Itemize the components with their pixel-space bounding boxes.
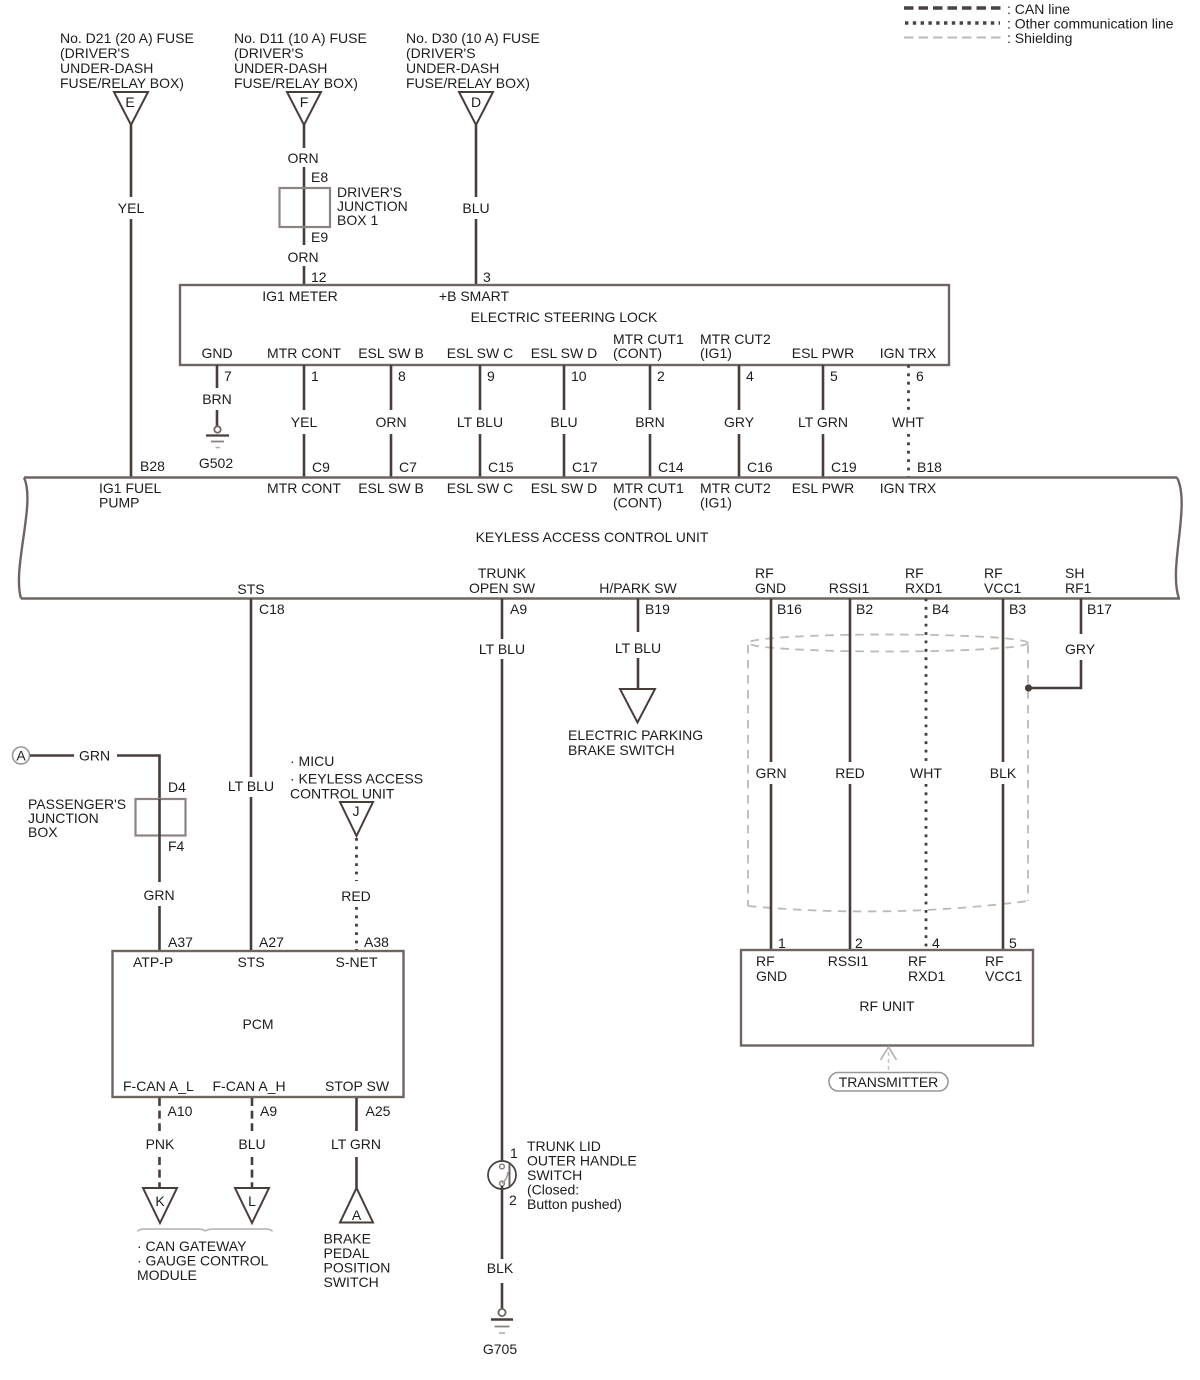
svg-text:GRN: GRN: [755, 765, 786, 781]
svg-text:LT BLU: LT BLU: [479, 641, 525, 657]
svg-text:GND: GND: [755, 580, 786, 596]
svg-text:C18: C18: [259, 601, 285, 617]
svg-text:IGN TRX: IGN TRX: [880, 345, 937, 361]
svg-text:E8: E8: [311, 169, 328, 185]
svg-text:ESL SW B: ESL SW B: [358, 345, 424, 361]
svg-text:A10: A10: [168, 1103, 193, 1119]
svg-text:C19: C19: [831, 459, 857, 475]
svg-text:2: 2: [855, 935, 863, 951]
svg-text:No. D30 (10 A) FUSE: No. D30 (10 A) FUSE: [406, 30, 540, 46]
svg-text:C15: C15: [488, 459, 514, 475]
pin 6 stub dotted: [907, 365, 910, 410]
MTR CUT1 wire lower: [649, 434, 652, 477]
connector D triangle: [459, 92, 493, 125]
RF GND wire upper: [770, 599, 773, 763]
svg-text:D4: D4: [168, 779, 186, 795]
svg-text:BOX: BOX: [28, 824, 58, 840]
RF RXD1 dotted wire upper: [925, 599, 928, 763]
svg-text:PCM: PCM: [242, 1016, 273, 1032]
svg-text:(IG1): (IG1): [700, 345, 732, 361]
svg-text:C7: C7: [399, 459, 417, 475]
svg-text:E9: E9: [311, 229, 328, 245]
svg-text:STS: STS: [238, 954, 265, 970]
svg-text:B4: B4: [932, 601, 949, 617]
svg-text:A9: A9: [510, 601, 527, 617]
STOP SW wire upper: [355, 1098, 358, 1131]
svg-text:ESL SW B: ESL SW B: [358, 480, 424, 496]
svg-text:ATP-P: ATP-P: [133, 954, 173, 970]
svg-text:K: K: [155, 1193, 165, 1209]
svg-text:B16: B16: [777, 601, 802, 617]
svg-text:10: 10: [571, 368, 587, 384]
svg-text:No. D11 (10 A) FUSE: No. D11 (10 A) FUSE: [234, 30, 367, 46]
wire F upper segment: [303, 125, 306, 148]
wire through passenger box: [158, 799, 161, 882]
svg-text:PUMP: PUMP: [99, 495, 139, 511]
svg-text:B3: B3: [1009, 601, 1026, 617]
MTR CONT wire lower: [303, 434, 306, 477]
svg-text:FUSE/RELAY BOX): FUSE/RELAY BOX): [234, 75, 358, 91]
svg-text:G705: G705: [483, 1341, 517, 1357]
svg-text:TRUNK: TRUNK: [478, 565, 527, 581]
svg-text:YEL: YEL: [118, 200, 145, 216]
svg-text:H/PARK SW: H/PARK SW: [599, 580, 677, 596]
svg-text:(CONT): (CONT): [613, 495, 662, 511]
svg-text:GRN: GRN: [143, 887, 174, 903]
svg-text:S-NET: S-NET: [336, 954, 378, 970]
svg-text:RXD1: RXD1: [905, 580, 943, 596]
svg-text:RF: RF: [985, 953, 1004, 969]
svg-text:ESL SW D: ESL SW D: [531, 345, 597, 361]
F-CAN A_H dashed wire lower: [251, 1157, 254, 1188]
svg-text:BLK: BLK: [487, 1260, 514, 1276]
junction dot on shield: [1025, 684, 1032, 691]
svg-text:12: 12: [311, 269, 327, 285]
driver's junction box 1: [280, 188, 331, 227]
pin 9 stub: [479, 365, 482, 410]
pin 1 stub: [303, 365, 306, 410]
svg-text:BLU: BLU: [550, 414, 577, 430]
svg-text:A27: A27: [259, 934, 284, 950]
pin 10 stub: [563, 365, 566, 410]
passenger's junction box label: [28, 796, 126, 840]
svg-text:RSSI1: RSSI1: [828, 953, 869, 969]
svg-text:IGN TRX: IGN TRX: [880, 480, 937, 496]
STS wire lower: [250, 797, 253, 951]
svg-text:F-CAN A_H: F-CAN A_H: [213, 1078, 286, 1094]
S-NET dotted wire upper: [355, 838, 358, 881]
svg-text:STOP SW: STOP SW: [325, 1078, 390, 1094]
wire E to keyless (YEL) upper segment: [130, 125, 133, 197]
trunk lid switch label: [527, 1138, 637, 1212]
F-CAN A_H dashed wire upper: [251, 1098, 254, 1131]
svg-text:GRY: GRY: [724, 414, 755, 430]
svg-text:UNDER-DASH: UNDER-DASH: [406, 60, 499, 76]
svg-text:(DRIVER'S: (DRIVER'S: [406, 45, 476, 61]
IGN TRX wire lower dotted: [907, 434, 910, 477]
svg-text:RF: RF: [905, 565, 924, 581]
svg-text:STS: STS: [237, 581, 264, 597]
svg-text:(CONT): (CONT): [613, 345, 662, 361]
svg-text:1: 1: [510, 1145, 518, 1161]
svg-text:ORN: ORN: [287, 150, 318, 166]
RF unit pin label RF GND: [756, 953, 787, 984]
svg-text:F: F: [300, 94, 309, 110]
PCM box: [113, 951, 404, 1097]
svg-text:CONTROL UNIT: CONTROL UNIT: [290, 786, 395, 802]
keyless pin label SH RF1: [1065, 565, 1092, 596]
RSSI1 wire lower: [849, 784, 852, 950]
svg-text:MODULE: MODULE: [137, 1267, 197, 1283]
svg-text:C14: C14: [658, 459, 684, 475]
fuse No. D30 label: [406, 30, 540, 91]
svg-text:B28: B28: [140, 458, 165, 474]
legend other communication line sample: [905, 21, 1000, 24]
svg-text:: Shielding: : Shielding: [1007, 30, 1072, 46]
svg-text:RF: RF: [984, 565, 1003, 581]
svg-text:GND: GND: [201, 345, 232, 361]
RF GND wire lower: [770, 784, 773, 950]
wire from A right segment and corner: [117, 756, 160, 800]
trunk lid outer handle switch: [488, 1161, 516, 1189]
F-CAN A_L dashed wire lower: [158, 1157, 161, 1188]
svg-text:A25: A25: [366, 1103, 391, 1119]
svg-text:RSSI1: RSSI1: [829, 580, 870, 596]
wire F lower segment: [303, 266, 306, 285]
svg-text:RED: RED: [835, 765, 865, 781]
svg-text:3: 3: [483, 269, 491, 285]
svg-text:KEYLESS ACCESS CONTROL UNIT: KEYLESS ACCESS CONTROL UNIT: [476, 529, 709, 545]
SH RF1 wire upper: [1080, 599, 1083, 635]
svg-text:YEL: YEL: [291, 414, 318, 430]
RF RXD1 dotted wire lower: [925, 784, 928, 950]
svg-text:B2: B2: [856, 601, 873, 617]
pin 7 stub: [216, 365, 219, 388]
svg-text:GND: GND: [756, 968, 787, 984]
ESL SW C wire lower: [479, 434, 482, 477]
svg-text:1: 1: [311, 368, 319, 384]
wire E to keyless (YEL) lower segment: [130, 219, 133, 477]
wire D upper segment: [475, 125, 478, 197]
svg-text:2: 2: [509, 1192, 517, 1208]
svg-text:FUSE/RELAY BOX): FUSE/RELAY BOX): [60, 75, 184, 91]
svg-text:· KEYLESS ACCESS: · KEYLESS ACCESS: [290, 771, 423, 787]
pin 5 stub: [822, 365, 825, 410]
connector L triangle: [235, 1188, 269, 1223]
trunk open sw wire upper: [501, 599, 504, 640]
svg-text:WHT: WHT: [910, 765, 942, 781]
svg-text:RF: RF: [756, 953, 775, 969]
svg-text:MTR CONT: MTR CONT: [267, 345, 341, 361]
svg-text:ESL PWR: ESL PWR: [792, 480, 855, 496]
svg-text:2: 2: [657, 368, 665, 384]
brace under K and L: [138, 1229, 273, 1232]
svg-text:VCC1: VCC1: [985, 968, 1023, 984]
RF VCC1 wire upper: [1002, 599, 1005, 763]
svg-text:UNDER-DASH: UNDER-DASH: [60, 60, 153, 76]
pin 4 stub: [738, 365, 741, 410]
svg-text:LT GRN: LT GRN: [798, 414, 848, 430]
RF unit box: [741, 950, 1033, 1046]
svg-text:7: 7: [224, 368, 232, 384]
svg-text:LT GRN: LT GRN: [331, 1136, 381, 1152]
svg-text:A: A: [16, 748, 26, 764]
svg-text:F-CAN A_L: F-CAN A_L: [123, 1078, 194, 1094]
svg-text:5: 5: [830, 368, 838, 384]
STS wire upper: [250, 599, 253, 778]
svg-text:PNK: PNK: [146, 1136, 175, 1152]
svg-text:SWITCH: SWITCH: [324, 1274, 379, 1290]
GND wire to ground: [216, 410, 219, 426]
svg-text:BLU: BLU: [238, 1136, 265, 1152]
svg-text:F4: F4: [168, 838, 185, 854]
connector A triangle (up): [340, 1188, 373, 1223]
keyless pin label MTR CUT2 (IG1): [700, 480, 771, 511]
svg-text:9: 9: [487, 368, 495, 384]
RF VCC1 wire lower: [1002, 784, 1005, 950]
MICU keyless label: [290, 753, 423, 802]
svg-text:LT BLU: LT BLU: [457, 414, 503, 430]
ground G705 symbol: [491, 1309, 513, 1333]
svg-text:6: 6: [916, 368, 924, 384]
circle A connector: [13, 747, 30, 764]
svg-text:LT BLU: LT BLU: [615, 640, 661, 656]
RSSI1 wire upper: [849, 599, 852, 763]
svg-text:ORN: ORN: [287, 249, 318, 265]
wire F through junction box: [303, 167, 306, 245]
keyless pin label RF RXD1: [905, 565, 943, 596]
svg-text:No. D21 (20 A) FUSE: No. D21 (20 A) FUSE: [60, 30, 194, 46]
svg-text:WHT: WHT: [892, 414, 924, 430]
S-NET dotted wire lower: [355, 907, 358, 950]
brake pedal position switch label: [324, 1231, 391, 1291]
MTR CUT2 wire lower: [738, 434, 741, 477]
ESL pin label MTR CUT2 (IG1): [700, 331, 771, 361]
passenger's junction box: [136, 799, 186, 836]
wire from A left segment: [30, 754, 74, 757]
driver's junction box 1 label: [337, 184, 408, 228]
electric steering lock box: [180, 285, 949, 365]
transmitter arrow: [881, 1047, 897, 1071]
svg-text:RED: RED: [341, 888, 371, 904]
svg-text:ESL PWR: ESL PWR: [792, 345, 855, 361]
svg-text:UNDER-DASH: UNDER-DASH: [234, 60, 327, 76]
svg-text:Button pushed): Button pushed): [527, 1196, 622, 1212]
trunk open sw wire middle: [501, 659, 504, 1165]
electric parking brake switch label: [568, 727, 703, 758]
svg-text:C16: C16: [747, 459, 773, 475]
connector J triangle: [340, 802, 373, 836]
trunk wire below switch: [501, 1186, 504, 1259]
RF unit pin label RF VCC1: [985, 953, 1023, 984]
svg-text:IG1 METER: IG1 METER: [262, 288, 337, 304]
ESL SW D wire lower: [563, 434, 566, 477]
legend CAN line sample: [904, 6, 1001, 10]
svg-text:RXD1: RXD1: [908, 968, 946, 984]
svg-text:RF: RF: [908, 953, 927, 969]
svg-text:D: D: [471, 94, 481, 110]
RF unit pin label RF RXD1: [908, 953, 946, 984]
svg-text:8: 8: [398, 368, 406, 384]
svg-text:4: 4: [932, 935, 940, 951]
svg-text:B19: B19: [645, 601, 670, 617]
svg-text:BRN: BRN: [202, 391, 232, 407]
svg-text:ELECTRIC PARKING: ELECTRIC PARKING: [568, 727, 703, 743]
keyless pin label TRUNK OPEN SW: [469, 565, 536, 596]
svg-text:(DRIVER'S: (DRIVER'S: [234, 45, 304, 61]
svg-text:A9: A9: [260, 1103, 277, 1119]
svg-text:J: J: [353, 803, 360, 819]
svg-text:FUSE/RELAY BOX): FUSE/RELAY BOX): [406, 75, 530, 91]
trunk wire to ground: [501, 1283, 504, 1309]
svg-text:C17: C17: [572, 459, 598, 475]
svg-text:E: E: [125, 94, 134, 110]
CAN gateway gauge control module label: [137, 1238, 269, 1283]
svg-text:RF UNIT: RF UNIT: [859, 998, 915, 1014]
svg-text:B17: B17: [1087, 601, 1112, 617]
F-CAN A_L dashed wire upper: [158, 1098, 161, 1131]
keyless pin label RF GND: [755, 565, 786, 596]
transmitter stadium: [829, 1073, 948, 1092]
svg-text:MTR CONT: MTR CONT: [267, 480, 341, 496]
STOP SW wire lower: [355, 1157, 358, 1188]
svg-text:+B SMART: +B SMART: [439, 288, 510, 304]
ESL PWR wire lower: [822, 434, 825, 477]
svg-text:GRY: GRY: [1065, 641, 1096, 657]
keyless pin label RF VCC1: [984, 565, 1022, 596]
h/park sw wire upper: [637, 599, 640, 633]
svg-text:4: 4: [746, 368, 754, 384]
svg-text:(DRIVER'S: (DRIVER'S: [60, 45, 130, 61]
svg-text:BLK: BLK: [990, 765, 1017, 781]
svg-text:TRANSMITTER: TRANSMITTER: [839, 1074, 939, 1090]
svg-text:C9: C9: [312, 459, 330, 475]
svg-text:OPEN SW: OPEN SW: [469, 580, 536, 596]
svg-text:RF: RF: [755, 565, 774, 581]
svg-text:· MICU: · MICU: [290, 753, 334, 769]
svg-text:BRAKE SWITCH: BRAKE SWITCH: [568, 742, 675, 758]
svg-text:RF1: RF1: [1065, 580, 1092, 596]
fuse No. D21 label: [60, 30, 194, 91]
svg-text:ESL SW C: ESL SW C: [447, 345, 513, 361]
connector E triangle: [114, 92, 148, 125]
connector F triangle: [287, 92, 321, 125]
pin 2 stub: [649, 365, 652, 410]
keyless pin label IG1 FUEL PUMP: [99, 480, 161, 511]
svg-text:A38: A38: [364, 934, 389, 950]
pin 8 stub: [390, 365, 393, 410]
svg-text:L: L: [248, 1193, 256, 1209]
fuse No. D11 label: [234, 30, 367, 91]
svg-text:A37: A37: [168, 934, 193, 950]
svg-text:SH: SH: [1065, 565, 1084, 581]
SH RF1 wire elbow to shield: [1028, 660, 1081, 688]
svg-text:BRN: BRN: [635, 414, 665, 430]
GRN wire to PCM: [158, 906, 161, 951]
svg-text:ESL SW C: ESL SW C: [447, 480, 513, 496]
svg-text:1: 1: [778, 935, 786, 951]
svg-text:(IG1): (IG1): [700, 495, 732, 511]
svg-text:G502: G502: [199, 455, 233, 471]
ground G502 symbol: [206, 426, 229, 447]
shielding outline (cylinder): [748, 635, 1028, 912]
svg-text:5: 5: [1009, 935, 1017, 951]
electric parking brake connector triangle: [620, 689, 655, 723]
svg-text:A: A: [352, 1207, 362, 1223]
svg-text:BLU: BLU: [462, 200, 489, 216]
ESL pin label MTR CUT1 (CONT): [613, 331, 684, 361]
wire D lower segment: [475, 219, 478, 285]
legend shielding sample: [904, 37, 1001, 39]
keyless pin label MTR CUT1 (CONT): [613, 480, 684, 511]
svg-text:ESL SW D: ESL SW D: [531, 480, 597, 496]
svg-text:LT BLU: LT BLU: [228, 778, 274, 794]
svg-text:BOX 1: BOX 1: [337, 212, 378, 228]
connector K triangle: [143, 1188, 177, 1223]
svg-text:B18: B18: [917, 459, 942, 475]
svg-text:VCC1: VCC1: [984, 580, 1022, 596]
h/park sw wire lower: [637, 658, 640, 689]
svg-text:ORN: ORN: [375, 414, 406, 430]
ESL SW B wire lower: [390, 434, 393, 477]
svg-text:ELECTRIC STEERING LOCK: ELECTRIC STEERING LOCK: [471, 309, 658, 325]
svg-text:GRN: GRN: [79, 748, 110, 764]
keyless access control unit band: [19, 478, 1182, 599]
